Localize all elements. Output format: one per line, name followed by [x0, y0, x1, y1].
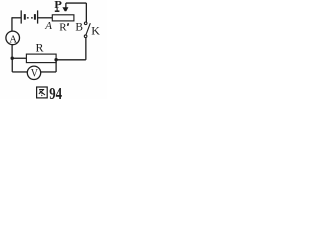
wire battery to rheostat [38, 17, 53, 19]
rheostat R' body [52, 15, 74, 21]
switch K upper contact [84, 22, 87, 25]
node junction dot left [11, 57, 14, 60]
pointer mark under P [55, 8, 60, 12]
wire resistor R left lead [12, 57, 26, 59]
battery GB dot dash 1 [27, 17, 29, 18]
svg-text:A: A [44, 20, 52, 32]
svg-text:94: 94 [49, 85, 62, 99]
wire top right horizontal [66, 2, 87, 4]
svg-text:K: K [91, 23, 100, 37]
label prime of R [67, 23, 70, 26]
rheostat slider arrowhead [62, 7, 68, 11]
svg-text:R: R [59, 21, 67, 33]
battery GB short thick plate right [34, 14, 36, 20]
wire voltmeter right horizontal [41, 71, 56, 73]
rheostat slider arrow stem [65, 3, 67, 8]
battery GB long plate left [20, 10, 22, 23]
battery GB dot dash 2 [31, 17, 33, 18]
svg-text:V: V [31, 67, 38, 80]
svg-text:A: A [9, 33, 17, 45]
resistor R body [26, 54, 56, 63]
wire left branch lower vertical [11, 58, 13, 72]
battery GB short thick plate left [24, 14, 26, 20]
svg-text:B: B [75, 21, 83, 33]
wire middle horizontal [56, 59, 86, 61]
wire battery left lead [12, 17, 21, 19]
wire right upper vertical to switch [85, 3, 87, 22]
wire left branch upper vertical [11, 17, 13, 31]
wire from node down to voltmeter branch [55, 60, 57, 72]
ammeter A circle [6, 31, 20, 45]
battery GB long plate right [37, 10, 39, 23]
node junction dot right of R [54, 58, 57, 61]
wire voltmeter left horizontal [12, 71, 27, 73]
svg-text:P: P [54, 0, 62, 11]
switch K lever [86, 23, 90, 35]
wire right lower vertical [85, 38, 87, 60]
wire left branch mid vertical (ammeter to node) [11, 45, 13, 59]
switch K lower contact [84, 35, 87, 38]
svg-text:R: R [36, 40, 44, 54]
caption character tu (figure) [37, 87, 48, 98]
voltmeter V circle [27, 66, 40, 79]
